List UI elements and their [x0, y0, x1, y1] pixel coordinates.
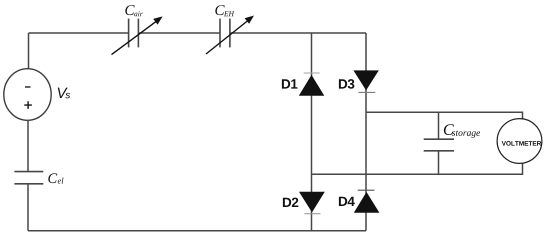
- wire Cstorage top stem: [438, 112, 440, 139]
- label D4: [339, 197, 355, 206]
- label D3: [339, 79, 354, 89]
- wire bridge right branch: [365, 33, 367, 231]
- diode D1 cathode bar: [304, 72, 320, 74]
- variable arrow through CEH: [206, 19, 250, 54]
- label Vs: [58, 88, 68, 98]
- wire bottom rail: [28, 230, 366, 232]
- wire top rail left segment: [29, 32, 129, 34]
- wire output bottom rail: [312, 163, 523, 174]
- capacitor Cair left plate: [128, 19, 130, 48]
- diode D2: [299, 192, 325, 213]
- wire source to Cel: [27, 120, 29, 171]
- capacitor Cstorage bottom plate: [424, 150, 454, 152]
- wire Cel to bottom rail: [27, 184, 29, 231]
- minus sign inside source: [25, 86, 31, 88]
- diode D1: [299, 75, 325, 96]
- label D1: [282, 79, 298, 88]
- diode D4: [354, 192, 380, 213]
- capacitor CEH right plate: [229, 19, 231, 48]
- plus sign inside source: [24, 101, 32, 109]
- capacitor Cel top plate: [14, 171, 43, 173]
- label CEH: [215, 5, 224, 15]
- wire Cstorage bottom stem: [438, 151, 440, 175]
- label D2: [283, 198, 298, 207]
- wire top rail right segment: [230, 32, 366, 34]
- label Cel: [48, 173, 57, 183]
- diode D3 cathode bar: [358, 91, 375, 93]
- capacitor Cel bottom plate: [14, 183, 43, 185]
- capacitor Cair right plate: [137, 19, 139, 48]
- diode D4 cathode bar: [358, 189, 375, 191]
- capacitor CEH left plate: [219, 19, 221, 48]
- wire left vertical from top rail to source: [28, 33, 30, 69]
- wire bridge left branch: [311, 33, 313, 231]
- voltmeter circle: [497, 119, 542, 164]
- label VOLTMETER: [502, 141, 542, 146]
- label Cstorage: [444, 124, 454, 135]
- capacitor Cstorage top plate: [424, 138, 454, 140]
- voltage source VS circle: [4, 69, 51, 121]
- label Cair: [125, 5, 134, 15]
- diode D3: [353, 70, 378, 90]
- wire top rail middle segment: [138, 32, 220, 34]
- variable arrow through Cair: [112, 20, 159, 55]
- diode D2 cathode bar: [304, 213, 320, 215]
- wire output top rail: [366, 112, 523, 119]
